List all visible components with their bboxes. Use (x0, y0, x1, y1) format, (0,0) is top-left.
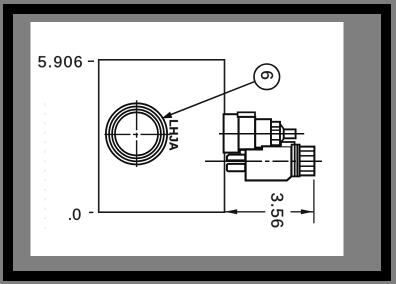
cartridge body block (255, 119, 271, 147)
dimension arrow left (225, 209, 238, 214)
knurl line 4 (300, 170, 315, 172)
solenoid centerline (205, 160, 322, 162)
dimension text .0 (69, 209, 80, 220)
tick dash for 5.906 (88, 60, 94, 62)
leader line from balloon (166, 82, 254, 117)
taper lower line (280, 138, 284, 143)
upper cartridge centerline (219, 133, 304, 135)
faint fold line (44, 103, 46, 229)
armature ridge stack (271, 122, 280, 145)
ridge line a (271, 126, 280, 128)
cartridge collar lip (238, 112, 255, 117)
extension line (313, 180, 315, 224)
cavity horizontal centerline (105, 133, 171, 135)
dimension line 3.56 right segment (291, 211, 314, 213)
port label LHJA (rotated) (169, 120, 177, 150)
cavity circle ring r27.6 (109, 106, 164, 161)
cavity circle bore r21.6 (115, 112, 158, 155)
cavity circle ring r24.5 (112, 109, 161, 158)
dimension text 3.56 (rotated) (271, 193, 283, 227)
solenoid coil body (246, 146, 292, 180)
terminal pin (284, 129, 296, 138)
leader arrowhead (162, 112, 173, 119)
dimension arrow right (301, 209, 314, 214)
ridge line c (271, 139, 280, 141)
white drawing sheet (31, 22, 344, 256)
manifold block rectangle (99, 60, 225, 212)
dimension text 5.906 (38, 56, 81, 67)
retaining rings (292, 145, 300, 177)
cavity vertical centerline (136, 100, 138, 167)
taper upper line (280, 124, 284, 130)
ring divider 1 (294, 145, 296, 177)
ring divider 2 (296, 145, 298, 177)
balloon text 6 (rotated) (261, 71, 273, 79)
cartridge flange plate (224, 114, 239, 152)
knurled nut (300, 147, 315, 176)
override step (240, 150, 246, 155)
knurl line 1 (300, 150, 315, 152)
ridge line b (271, 129, 280, 131)
cavity circle ring r30.8 (106, 103, 167, 164)
balloon circle (254, 64, 280, 90)
knurl line 2 (300, 155, 315, 157)
override block upper (227, 155, 245, 161)
override block lower (227, 164, 245, 171)
knurl line 3 (300, 165, 315, 167)
connector step under pin (281, 142, 295, 146)
tick dash for .0 (89, 211, 93, 213)
cartridge hex nut (239, 117, 256, 149)
dimension line 3.56 left segment (225, 211, 266, 213)
